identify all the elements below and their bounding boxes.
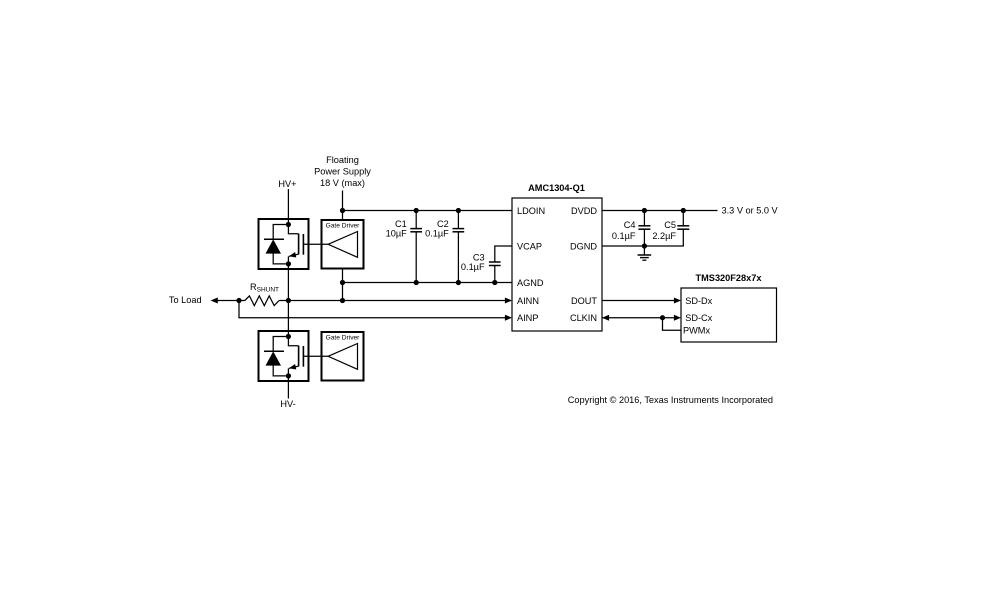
IGBT collector connect bbox=[288, 225, 298, 234]
arrowhead into CLKIN bbox=[602, 315, 609, 321]
gate driver (top) bbox=[322, 220, 364, 269]
IGBT emitter diagonal bbox=[289, 366, 299, 368]
junction load / AINP branch bbox=[236, 298, 241, 303]
svg-text:2.2µF: 2.2µF bbox=[652, 231, 676, 241]
Q2 collector junction dot bbox=[286, 334, 291, 339]
wire trunk shunt node to Q2 collector bbox=[287, 301, 289, 337]
resistor RSHUNT bbox=[245, 296, 279, 306]
svg-text:Copyright © 2016, Texas Instru: Copyright © 2016, Texas Instruments Inco… bbox=[568, 395, 773, 405]
IGBT emitter arrowhead bbox=[289, 252, 296, 258]
wire Q2 gate to gate driver bbox=[303, 355, 328, 357]
junction DVDD / C4 bbox=[642, 208, 647, 213]
IGBT channel bar bbox=[298, 234, 300, 255]
ground bbox=[638, 246, 652, 260]
svg-text:0.1µF: 0.1µF bbox=[425, 229, 449, 239]
svg-text:18 V (max): 18 V (max) bbox=[320, 178, 365, 188]
Q2 module box bbox=[259, 331, 309, 381]
svg-text:HV+: HV+ bbox=[278, 179, 296, 189]
gate driver (bottom) bbox=[322, 332, 364, 381]
svg-text:C1: C1 bbox=[395, 219, 407, 229]
svg-text:AINN: AINN bbox=[517, 296, 539, 306]
diode triangle bbox=[266, 239, 282, 253]
label C3 0.1uF bbox=[461, 252, 485, 272]
label C4 0.1uF bbox=[612, 220, 636, 241]
svg-text:SD-Cx: SD-Cx bbox=[685, 313, 712, 323]
junction DGND / ground bbox=[642, 243, 647, 248]
svg-text:Gate Driver: Gate Driver bbox=[326, 223, 361, 230]
IGBT gate bar bbox=[302, 234, 304, 255]
svg-text:Floating: Floating bbox=[326, 155, 359, 165]
transistor Q1 (IGBT with anti-parallel diode) bbox=[259, 219, 309, 269]
svg-text:C3: C3 bbox=[473, 252, 485, 262]
IGBT gate bar bbox=[302, 346, 304, 367]
transistor Q2 (IGBT with anti-parallel diode) bbox=[259, 331, 309, 381]
svg-text:C4: C4 bbox=[624, 220, 636, 230]
label C2 0.1uF bbox=[425, 219, 449, 239]
wire AINP branch bbox=[239, 301, 505, 318]
wire AGND rail bbox=[343, 282, 513, 284]
arrowhead into AINN bbox=[505, 298, 512, 304]
svg-text:TMS320F28x7x: TMS320F28x7x bbox=[696, 273, 763, 283]
svg-text:PWMx: PWMx bbox=[683, 326, 710, 336]
svg-text:0.1µF: 0.1µF bbox=[461, 262, 485, 272]
wire Q1 gate to gate driver bbox=[303, 243, 328, 245]
diode branch wires bbox=[273, 225, 288, 264]
diode triangle bbox=[266, 351, 282, 365]
wire DOUT to SD-Dx bbox=[602, 300, 674, 302]
wire VCAP to C3 bbox=[495, 246, 512, 262]
wire HV+ to Q1 collector bbox=[287, 189, 289, 225]
arrowhead into AINP bbox=[505, 315, 512, 321]
junction driver drop / AINN line bbox=[340, 298, 345, 303]
IGBT emitter lead bbox=[287, 368, 289, 376]
wire DVDD rail bbox=[602, 210, 718, 212]
arrowhead into SD-Cx bbox=[674, 315, 681, 321]
wire PWMx branch bbox=[663, 318, 682, 331]
IGBT collector connect bbox=[288, 337, 298, 346]
wire gate driver output drop to AINN line bbox=[342, 269, 344, 301]
label C1 10uF bbox=[386, 219, 408, 239]
IGBT emitter diagonal bbox=[289, 254, 299, 256]
svg-text:C5: C5 bbox=[664, 220, 676, 230]
IGBT emitter lead bbox=[287, 256, 289, 264]
wire shunt node to AINN bbox=[279, 300, 505, 302]
IC U1 AMC1304-Q1 bbox=[512, 183, 602, 331]
svg-text:0.1µF: 0.1µF bbox=[612, 231, 636, 241]
IGBT channel bar bbox=[298, 346, 300, 367]
junction driver drop / AGND rail bbox=[340, 280, 345, 285]
svg-text:CLKIN: CLKIN bbox=[570, 313, 597, 323]
wire To Load to resistor bbox=[217, 300, 245, 302]
svg-text:Power Supply: Power Supply bbox=[314, 166, 371, 176]
capacitor C5 bbox=[677, 211, 689, 230]
junction shunt / Q1 emitter bbox=[286, 298, 291, 303]
capacitor C2 bbox=[453, 208, 465, 285]
Q2 emitter junction dot bbox=[286, 373, 291, 378]
svg-text:C2: C2 bbox=[437, 219, 449, 229]
svg-text:DVDD: DVDD bbox=[571, 206, 597, 216]
junction supply / LDOIN rail bbox=[340, 208, 345, 213]
svg-text:AGND: AGND bbox=[517, 278, 544, 288]
capacitor C1 bbox=[410, 208, 422, 285]
wire Q2 emitter to HV- bbox=[287, 376, 289, 399]
svg-text:Gate Driver: Gate Driver bbox=[326, 335, 361, 342]
svg-text:AMC1304-Q1: AMC1304-Q1 bbox=[528, 183, 585, 193]
junction PWMx branch bbox=[660, 315, 665, 320]
Q1 collector junction dot bbox=[286, 222, 291, 227]
wire LDOIN rail bbox=[343, 210, 513, 212]
diode cathode bar bbox=[264, 350, 284, 352]
label C5 2.2uF bbox=[652, 220, 676, 241]
IGBT emitter arrowhead bbox=[289, 364, 296, 370]
net Floating Power Supply label bbox=[314, 155, 371, 188]
capacitor C3 bbox=[489, 262, 501, 285]
svg-text:LDOIN: LDOIN bbox=[517, 206, 545, 216]
IC U2 TMS320F28x7x bbox=[681, 273, 777, 342]
wire DGND rail to C5 bbox=[602, 229, 683, 246]
svg-text:To Load: To Load bbox=[169, 295, 202, 305]
diode branch wires bbox=[273, 337, 288, 376]
arrowhead To Load bbox=[211, 298, 218, 304]
svg-text:3.3 V or 5.0 V: 3.3 V or 5.0 V bbox=[722, 206, 779, 216]
Q1 emitter junction dot bbox=[286, 261, 291, 266]
svg-text:10µF: 10µF bbox=[386, 229, 408, 239]
svg-text:DOUT: DOUT bbox=[571, 296, 597, 306]
svg-text:DGND: DGND bbox=[570, 241, 597, 251]
junction DVDD / C5 bbox=[681, 208, 686, 213]
wire CLKIN to SD-Cx bbox=[602, 317, 674, 319]
capacitor C4 bbox=[638, 211, 650, 247]
wire floating supply drop to gate driver bbox=[342, 191, 344, 221]
Q1 module box bbox=[259, 219, 309, 269]
svg-text:SD-Dx: SD-Dx bbox=[685, 296, 712, 306]
diode cathode bar bbox=[264, 238, 284, 240]
wire Q1 emitter to shunt node bbox=[287, 264, 289, 301]
svg-text:VCAP: VCAP bbox=[517, 241, 542, 251]
svg-text:AINP: AINP bbox=[517, 313, 538, 323]
arrowhead into SD-Dx bbox=[674, 298, 681, 304]
svg-text:HV-: HV- bbox=[280, 399, 295, 409]
